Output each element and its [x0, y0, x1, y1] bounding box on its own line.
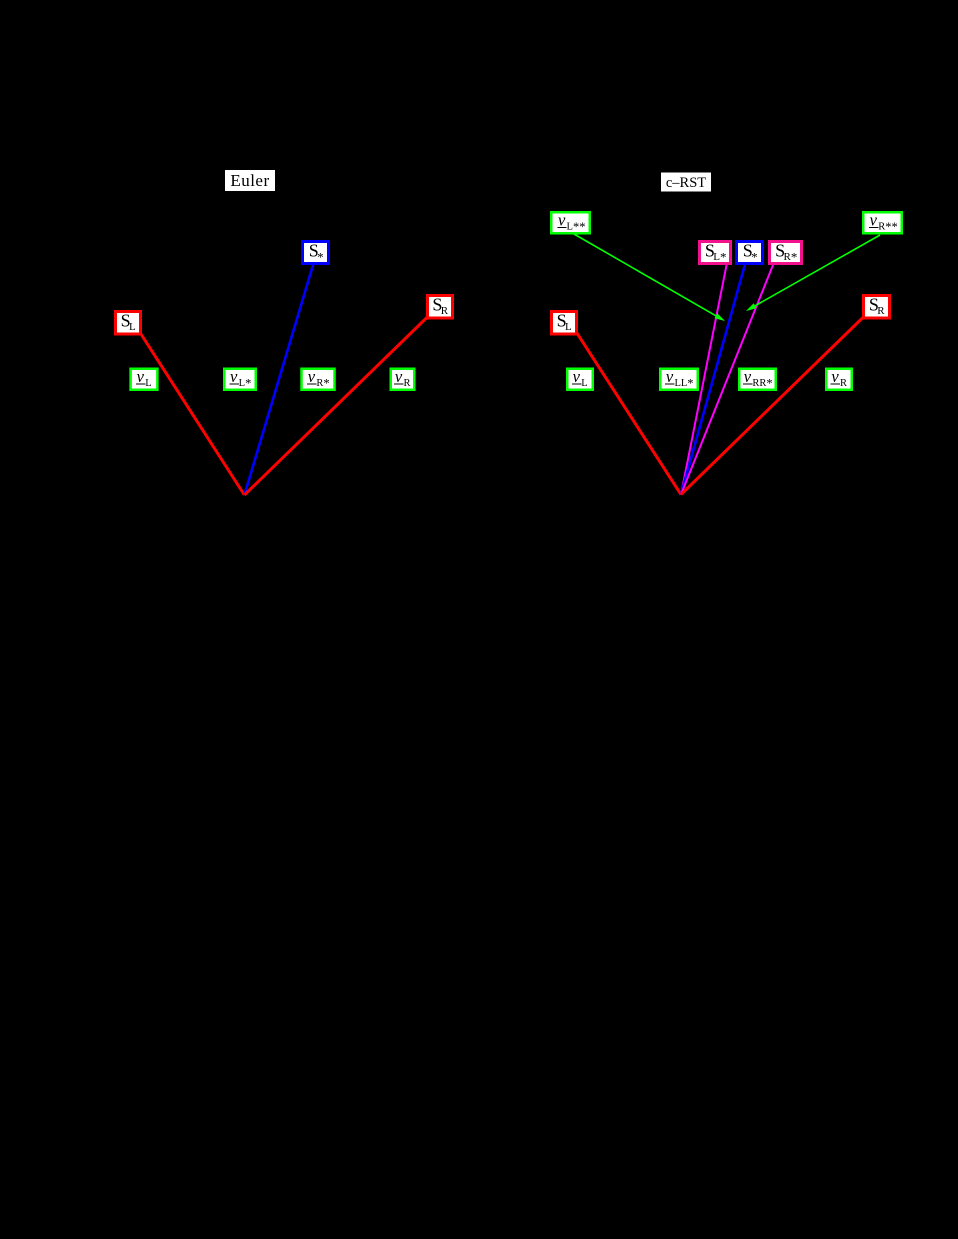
- svg-text:v: v: [573, 367, 581, 386]
- node v_L box (left diagram): [131, 367, 158, 390]
- svg-text:v: v: [308, 367, 316, 386]
- wire red line apex to S_L (right diagram): [575, 330, 681, 495]
- node S_* box (left diagram): [303, 241, 329, 265]
- node v_L box (right diagram): [567, 367, 593, 390]
- svg-text:RR*: RR*: [752, 377, 772, 391]
- node S_L box (right diagram): [552, 311, 577, 335]
- svg-text:L: L: [129, 321, 136, 333]
- svg-text:L*: L*: [713, 250, 726, 265]
- svg-text:c–RST: c–RST: [666, 175, 706, 191]
- svg-text:L**: L**: [567, 220, 586, 234]
- node v_R** box (right diagram): [863, 211, 902, 235]
- svg-text:v: v: [744, 367, 752, 386]
- svg-text:R: R: [877, 305, 885, 317]
- svg-text:v: v: [230, 367, 238, 386]
- svg-text:*: *: [317, 250, 324, 265]
- node v_R box (left diagram): [391, 367, 415, 390]
- svg-text:Euler: Euler: [230, 171, 269, 190]
- svg-text:*: *: [751, 250, 758, 265]
- svg-text:v: v: [558, 211, 566, 230]
- wire red line apex to S_R (right diagram): [681, 315, 866, 495]
- node v_RR* box (right diagram): [739, 367, 776, 391]
- svg-text:v: v: [831, 367, 839, 386]
- svg-text:R: R: [840, 378, 847, 389]
- svg-text:R: R: [441, 305, 449, 317]
- node S_* box (right diagram): [737, 241, 763, 265]
- node v_L* box (left diagram): [224, 367, 256, 391]
- node v_LL* box (right diagram): [660, 367, 698, 391]
- node S_R box (right diagram): [864, 295, 890, 319]
- node v_L** box (right diagram): [551, 211, 590, 235]
- wire red line apex to S_L (left diagram): [139, 331, 244, 495]
- svg-text:R*: R*: [784, 250, 798, 265]
- wire green arrow from v_R** into star-right region: [746, 235, 880, 311]
- svg-text:R**: R**: [878, 220, 898, 234]
- svg-text:v: v: [137, 367, 145, 386]
- wire green arrow from v_L** into star-left region: [574, 234, 725, 321]
- svg-text:v: v: [870, 211, 878, 230]
- wire blue line apex to S_* (right diagram): [681, 250, 749, 495]
- node c-RST title: [661, 173, 711, 192]
- svg-text:LL*: LL*: [674, 377, 693, 391]
- node Euler title: [225, 170, 275, 191]
- node v_R box (right diagram): [826, 367, 852, 390]
- wire magenta line apex to S_R* (right diagram): [681, 250, 779, 495]
- svg-text:v: v: [666, 367, 674, 386]
- node S_L* box (right diagram): [700, 241, 731, 265]
- node v_R* box (left diagram): [302, 367, 335, 391]
- node S_R box (left diagram): [428, 295, 453, 319]
- svg-text:L: L: [565, 321, 572, 333]
- svg-text:R: R: [403, 378, 410, 389]
- svg-text:R*: R*: [316, 377, 329, 391]
- svg-text:L: L: [581, 378, 587, 389]
- node S_L box (left diagram): [116, 311, 141, 335]
- wire red line apex to S_R (left diagram): [244, 314, 431, 496]
- wire magenta line apex to S_L* (right diagram): [681, 250, 730, 495]
- node S_R* box (right diagram): [770, 241, 802, 265]
- svg-text:v: v: [395, 367, 403, 386]
- wire blue line apex to S_* (left diagram): [244, 250, 317, 495]
- svg-text:L: L: [145, 378, 151, 389]
- svg-text:L*: L*: [239, 377, 252, 391]
